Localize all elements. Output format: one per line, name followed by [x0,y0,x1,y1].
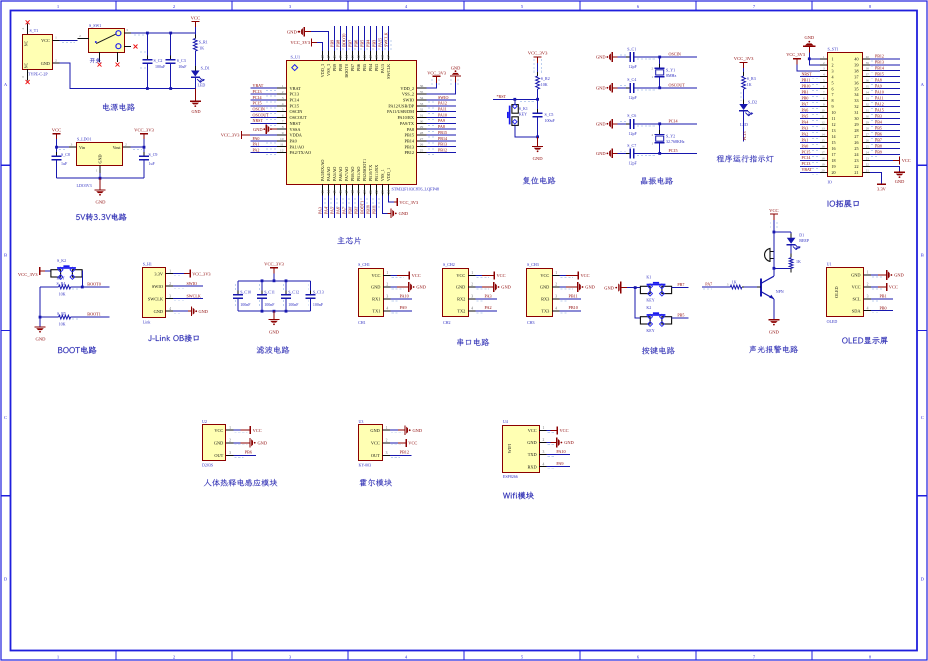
svg-text:10: 10 [280,137,284,141]
svg-text:38: 38 [854,68,858,73]
svg-text:C: C [921,415,924,420]
svg-text:OLED: OLED [827,319,838,324]
svg-text:37: 37 [854,74,858,79]
svg-text:1: 1 [386,271,388,275]
svg-text:STM32F103C8T6_LQFP48: STM32F103C8T6_LQFP48 [392,187,439,192]
svg-text:SWIO: SWIO [187,281,198,286]
svg-text:18: 18 [821,156,825,160]
svg-text:RX3: RX3 [541,297,549,302]
svg-text:PC13: PC13 [253,89,262,94]
svg-text:NC: NC [25,62,29,68]
power ground GND at U3 pin1 [390,429,398,431]
capacitor S_C5 100uF (reset) [533,99,556,137]
svg-text:11: 11 [822,115,825,119]
svg-text:GND: GND [501,285,511,290]
svg-text:S_U1: S_U1 [291,54,301,59]
svg-text:1: 1 [832,56,834,61]
svg-text:D203S: D203S [202,463,213,468]
svg-text:VCC: VCC [41,38,50,43]
crystal S_Y1 8MHz [651,57,676,88]
svg-text:PB8: PB8 [336,40,341,47]
svg-text:PB7: PB7 [677,282,684,287]
svg-text:PA8: PA8 [875,78,882,83]
junction PC14 rail [658,122,661,125]
svg-text:VSS_3: VSS_3 [326,64,331,76]
buzzer [765,248,774,261]
svg-text:VCC: VCC [889,285,898,290]
junction top rail at C3 [169,32,172,35]
svg-text:S_H1: S_H1 [143,261,152,266]
svg-text:IO: IO [828,180,832,185]
svg-text:1: 1 [651,141,653,145]
svg-text:SWIO: SWIO [438,95,449,100]
svg-text:PB2/BOOT1: PB2/BOOT1 [362,159,367,181]
svg-text:37: 37 [387,55,391,59]
svg-text:VBAT: VBAT [290,86,302,91]
svg-text:PB9: PB9 [875,149,882,154]
svg-text:3: 3 [555,295,557,299]
svg-text:GND: GND [805,35,815,40]
svg-text:GND: GND [895,179,905,184]
power port VCC_3V3 at U1 VDD_1 [389,195,395,202]
svg-text:OSCIN: OSCIN [290,109,303,114]
svg-text:S_SW1: S_SW1 [89,23,101,28]
svg-text:Link: Link [143,320,151,325]
svg-text:PB15: PB15 [875,72,884,77]
svg-text:NRST: NRST [290,121,301,126]
svg-text:100uF: 100uF [545,118,556,123]
svg-text:35: 35 [420,90,424,94]
svg-text:S_T1: S_T1 [30,28,39,33]
svg-text:PB15: PB15 [404,133,414,138]
svg-text:PA6: PA6 [802,107,809,112]
svg-text:40: 40 [854,56,858,61]
wire VCC_3V3 to key S_K2 [45,270,52,272]
svg-text:VDD_1: VDD_1 [386,168,391,182]
svg-text:PA10: PA10 [875,90,884,95]
svg-text:PB0: PB0 [802,96,809,101]
svg-text:CH3: CH3 [527,320,535,325]
svg-text:S_C8: S_C8 [61,152,70,157]
svg-text:S_K2: S_K2 [57,258,66,263]
svg-text:SWIO: SWIO [152,284,163,289]
svg-text:PA2: PA2 [253,147,260,152]
wire branch to LED D1 [774,231,791,233]
svg-text:NC: NC [25,40,29,46]
resistor S_R3 1K [742,72,756,93]
wire resistor bottom to rail [774,267,791,269]
wire LDO bottom rail [57,177,145,179]
junction Vout node [143,146,146,149]
serial S_CH1 power ground GND [391,286,398,288]
wire VCC_3V3 to top rail [273,274,275,281]
connector S_T1 TYPE-C-2P [21,24,59,81]
svg-text:PB12: PB12 [875,54,884,59]
svg-text:8: 8 [832,98,834,103]
svg-text:PC13: PC13 [802,161,811,166]
svg-text:VSS_2: VSS_2 [402,92,414,97]
svg-text:26: 26 [420,143,424,147]
capacitor S_C2 100uF [140,33,166,89]
wire T1 VCC to switch [60,39,78,41]
svg-text:7: 7 [832,92,834,97]
svg-text:VCC: VCC [214,428,223,433]
junction collector node [773,267,776,270]
svg-text:1K: 1K [747,82,752,87]
svg-text:8: 8 [282,125,284,129]
wire LDO Vout to node [131,146,145,148]
svg-text:PC15: PC15 [669,148,678,153]
svg-text:3: 3 [229,451,231,455]
capacitor S_C12 100nF [281,281,299,311]
svg-text:GND: GND [154,309,163,314]
svg-text:100nF: 100nF [313,302,324,307]
section title 电源电路 [103,103,135,111]
svg-text:VCC: VCC [560,428,569,433]
svg-text:1: 1 [386,426,388,430]
svg-text:PB11: PB11 [569,293,578,298]
svg-text:VCC_3V3: VCC_3V3 [290,40,310,45]
wire K1 to PB7 [672,287,689,289]
svg-text:CH2: CH2 [443,320,451,325]
svg-text:PC15: PC15 [290,103,300,108]
svg-text:PA7: PA7 [705,282,712,287]
svg-text:GND: GND [596,55,606,60]
svg-text:VSS_1: VSS_1 [380,169,385,181]
svg-text:U1: U1 [827,262,832,267]
capacitor S_C13 100nF [306,281,324,311]
svg-text:22: 22 [375,190,379,194]
svg-text:GND: GND [98,154,103,163]
svg-text:S_R4: S_R4 [57,281,66,286]
svg-text:GND: GND [199,309,208,314]
Hall module U3 body [359,419,390,468]
svg-text:36: 36 [854,80,858,85]
svg-text:VCC: VCC [408,440,417,445]
section title Wifi模块 [503,492,534,500]
svg-text:RX1: RX1 [372,297,380,302]
svg-text:PB5: PB5 [875,125,882,130]
capacitor S_C9 1uF [139,152,157,178]
svg-text:48: 48 [321,55,325,59]
svg-text:14: 14 [832,134,836,139]
resistor S_R4 10K [55,281,75,296]
svg-text:21: 21 [866,168,870,172]
svg-text:2: 2 [79,34,81,38]
svg-text:PC14: PC14 [802,155,811,160]
net PB0 at OLED pin4 [871,310,893,312]
svg-text:PB5: PB5 [362,64,367,71]
svg-text:B: B [921,253,924,258]
svg-text:1K: 1K [732,279,737,284]
svg-text:VCC: VCC [456,273,465,278]
svg-text:PA0: PA0 [290,138,297,143]
svg-text:36: 36 [866,79,870,83]
svg-text:S_R2: S_R2 [541,76,550,81]
switch S_SW1 [78,23,132,62]
svg-text:100nF: 100nF [264,302,275,307]
power ground GND at U1 VSS_3 [311,32,329,51]
svg-text:19: 19 [357,190,361,194]
svg-text:33: 33 [420,102,424,106]
svg-text:PB6: PB6 [245,450,252,455]
resistor S_R2 10K [536,72,550,93]
svg-text:22: 22 [854,164,858,169]
filter bottom rail [238,310,311,312]
section title IO拓展口 [828,200,859,207]
svg-text:36: 36 [420,84,424,88]
junction LDO GND node [99,177,102,180]
svg-text:29: 29 [866,121,870,125]
svg-text:2: 2 [229,438,231,442]
svg-text:17: 17 [832,152,836,157]
svg-text:37: 37 [866,73,870,77]
svg-text:OSCIN: OSCIN [669,52,681,57]
svg-text:2: 2 [651,67,653,71]
svg-text:4: 4 [543,462,545,466]
svg-text:24: 24 [387,190,391,194]
svg-text:GND: GND [399,211,409,216]
svg-text:1uF: 1uF [61,161,68,166]
U1 bottom pin names and numbers [320,159,391,195]
junction OSCIN rail [658,56,661,59]
svg-text:OSCIN: OSCIN [253,107,265,112]
svg-text:12pF: 12pF [629,131,638,136]
svg-text:20: 20 [832,170,836,175]
wire bottom rail to GND (filter) [273,311,275,319]
section title 霍尔模块 [360,479,393,487]
serial S_CH3 power port VCC [560,274,567,276]
svg-text:BOOT0: BOOT0 [342,34,347,48]
svg-text:GND: GND [596,151,606,156]
svg-text:PC14: PC14 [290,98,300,103]
svg-text:GND: GND [769,330,780,335]
svg-text:VBAT: VBAT [802,167,813,172]
wire switch to VCC rail [131,32,195,34]
svg-text:5: 5 [832,80,834,85]
net PA7 wire to base resistor [702,286,730,288]
junction bottom rail at C2 [146,87,149,90]
svg-text:OUT: OUT [214,453,223,458]
junction Vin node [55,146,58,149]
svg-text:PB0/AO: PB0/AO [350,166,355,181]
svg-text:1: 1 [229,426,231,430]
svg-text:GND: GND [214,440,223,445]
svg-text:GND: GND [36,337,47,342]
svg-text:OSCOUT: OSCOUT [290,115,308,120]
svg-text:OSCOUT: OSCOUT [669,83,686,88]
svg-text:3: 3 [543,450,545,454]
svg-text:PA9: PA9 [400,305,407,310]
push button K1 KEY [640,275,671,303]
svg-text:SWIO: SWIO [403,98,414,103]
svg-text:PB6: PB6 [875,131,882,136]
svg-text:S_C13: S_C13 [313,290,324,295]
svg-text:6: 6 [832,86,834,91]
svg-text:PA5: PA5 [802,113,809,118]
svg-text:PB11: PB11 [372,205,377,214]
svg-text:21: 21 [369,190,373,194]
svg-text:38: 38 [381,55,385,59]
svg-text:1K: 1K [796,259,801,264]
svg-text:VCC_3V3: VCC_3V3 [786,52,806,57]
svg-text:VCC: VCC [852,285,861,290]
svg-text:S_LDO1: S_LDO1 [77,136,91,141]
svg-text:4: 4 [471,306,473,310]
svg-text:40: 40 [369,55,373,59]
svg-text:31: 31 [866,109,870,113]
svg-text:31: 31 [854,110,858,115]
power ground GND (filter) [269,319,280,321]
svg-text:C: C [4,415,7,420]
svg-text:25: 25 [854,146,858,151]
svg-text:PB7: PB7 [348,40,353,47]
crystal cap S_C4 12pF row OSCOUT with ground [596,77,697,100]
svg-text:PA10: PA10 [556,449,565,454]
net SWIO at H1 pin2 [173,285,203,287]
svg-text:PB3: PB3 [374,64,379,71]
svg-text:1uF: 1uF [149,161,156,166]
svg-text:GND: GND [451,66,461,71]
serial S_CH3 power ground GND [560,286,567,288]
section title 声光报警电路 [749,346,798,354]
svg-text:VCC_3V3: VCC_3V3 [528,51,548,56]
svg-text:43: 43 [351,55,355,59]
svg-text:SWCLK: SWCLK [187,293,201,298]
svg-text:2: 2 [543,438,545,442]
svg-text:VCC_3V3: VCC_3V3 [264,261,284,266]
svg-text:30: 30 [420,119,424,123]
push button S_K1 KEY (reset) [507,104,528,125]
capacitor S_C10 100nF [233,281,251,311]
wire LED to resistor [790,245,792,258]
svg-text:GND: GND [370,428,379,433]
svg-text:PA9/TX: PA9/TX [400,121,415,126]
power ground GND at S_ST1 pin 22 [870,166,900,171]
svg-text:40: 40 [866,55,870,59]
svg-text:GND: GND [540,285,549,290]
svg-text:NPN: NPN [776,289,784,294]
svg-text:PC14: PC14 [253,95,262,100]
svg-text:2: 2 [471,283,473,287]
capacitor S_C11 100nF [257,281,275,311]
svg-text:23: 23 [854,158,858,163]
svg-text:PB9: PB9 [332,64,337,71]
serial S_CH3 net PB11 [560,298,582,300]
svg-text:3.3V: 3.3V [877,187,886,192]
svg-text:GND: GND [585,285,595,290]
no-connect mark T1 top pin [26,20,30,24]
svg-text:4: 4 [386,306,388,310]
wire rail to R4 [40,286,59,288]
power ground GND (alarm) [768,319,779,321]
svg-text:PA5: PA5 [330,207,335,214]
junction top rail at C2 [146,32,149,35]
svg-text:15: 15 [821,138,825,142]
svg-text:PB11: PB11 [802,78,811,83]
svg-text:PB1: PB1 [354,207,359,214]
svg-text:3: 3 [471,295,473,299]
wire R5 to BOOT1 port [71,316,110,318]
power ground GND at U4 pin2 [547,442,551,444]
svg-text:PB5: PB5 [360,40,365,47]
svg-text:BOOT1: BOOT1 [360,201,365,214]
serial S_CH1 net PA10 [391,298,413,300]
svg-text:20: 20 [363,190,367,194]
svg-text:PA10: PA10 [400,293,409,298]
crystal S_Y2 32.768KHz [651,124,684,154]
power ground GND at U2 pin2 [233,442,240,444]
svg-text:27: 27 [866,132,870,136]
svg-text:PC15: PC15 [802,149,811,154]
svg-text:20: 20 [821,168,825,172]
svg-text:1: 1 [55,36,57,40]
svg-text:S_D2: S_D2 [748,100,757,105]
junction filter rail bottom C11 [261,310,264,313]
svg-text:17: 17 [345,190,349,194]
svg-text:PB14: PB14 [875,66,884,71]
svg-text:GND: GND [564,440,574,445]
svg-text:PA12/USB/DP: PA12/USB/DP [388,103,414,108]
svg-text:GND: GND [258,440,268,445]
svg-text:GND: GND [604,285,614,290]
svg-text:PA7: PA7 [802,101,809,106]
svg-text:PA6/AO: PA6/AO [338,167,343,182]
svg-text:46: 46 [333,55,337,59]
svg-text:18: 18 [351,190,355,194]
wire rail to GND [194,89,196,102]
svg-text:S_C9: S_C9 [149,152,158,157]
svg-text:PB10/TX: PB10/TX [368,164,373,181]
svg-text:1: 1 [555,271,557,275]
wire R3 to LED D2 [743,89,745,104]
svg-text:VDDA: VDDA [290,133,303,138]
power port VCC at U2 pin1 [233,429,240,431]
filter top rail [238,280,311,282]
svg-text:PB5: PB5 [677,313,684,318]
svg-text:U4: U4 [503,419,508,424]
svg-text:34: 34 [854,92,858,97]
svg-text:S_CH3: S_CH3 [527,262,539,267]
net SWCLK at H1 pin3 [173,298,203,300]
svg-text:16: 16 [339,190,343,194]
svg-text:100nF: 100nF [240,302,251,307]
power port VCC at U4 pin1 [547,429,551,431]
svg-text:PB3: PB3 [875,113,882,118]
power port VCC_3V3 at H1 pin1 [173,273,184,275]
svg-text:PB7: PB7 [875,137,882,142]
serial S_CH1 power port VCC [391,274,398,276]
svg-text:35: 35 [866,85,870,89]
svg-text:17: 17 [821,150,825,154]
svg-text:VCC_3V3: VCC_3V3 [192,271,210,276]
svg-text:28: 28 [854,128,858,133]
U1 left pin names and numbers [277,84,311,155]
svg-text:PA12: PA12 [438,101,447,106]
wire to GND (reset) [537,137,539,147]
svg-text:VCC_3V3: VCC_3V3 [221,133,241,138]
svg-text:13: 13 [321,190,325,194]
switch label 开关 [90,58,101,63]
svg-text:GND: GND [191,109,200,114]
power port VCC_3V3 at U1 VDD_3 [317,43,323,52]
svg-text:34: 34 [866,91,870,95]
svg-text:S_C2: S_C2 [154,58,163,63]
svg-text:S_Y1: S_Y1 [666,67,675,72]
svg-text:1: 1 [651,75,653,79]
svg-text:100nF: 100nF [288,302,299,307]
svg-text:*RST: *RST [497,94,507,99]
